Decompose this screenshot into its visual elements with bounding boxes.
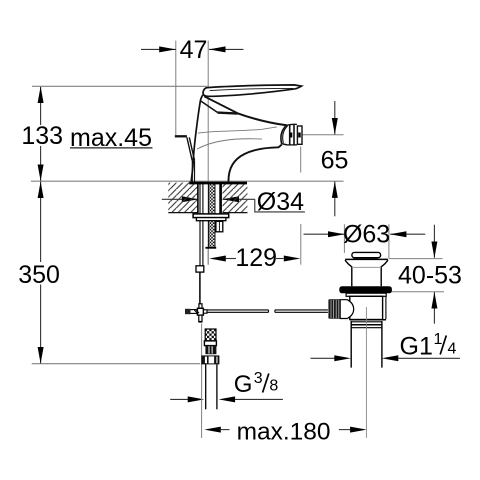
svg-text:40-53: 40-53	[398, 261, 462, 289]
drain valve knurled knob	[328, 299, 340, 319]
svg-text:G: G	[234, 371, 253, 398]
svg-text:65: 65	[321, 146, 349, 174]
svg-text:max.180: max.180	[237, 419, 331, 446]
flexible hose with G3/8 connector	[201, 329, 219, 409]
linkage cross fitting	[185, 304, 207, 322]
svg-text:3: 3	[254, 370, 263, 387]
svg-text:G1: G1	[400, 333, 433, 361]
countertop deck hatch right	[223, 183, 248, 213]
dimension G 3/8	[170, 370, 283, 402]
pop-up rod lower	[196, 266, 204, 304]
label max.45	[70, 124, 153, 152]
svg-text:133: 133	[21, 122, 63, 150]
svg-text:47: 47	[180, 36, 208, 64]
faucet handle lever	[200, 85, 301, 114]
node: extension line 47 right / faucet centerline	[207, 41, 209, 181]
svg-text:1: 1	[434, 331, 443, 348]
dimension 129	[208, 147, 301, 273]
svg-text:129: 129	[235, 244, 277, 272]
dimension G1 1/4	[311, 331, 461, 361]
horizontal actuator rod	[207, 310, 328, 312]
faucet body	[191, 95, 286, 182]
drain valve side port connector	[340, 300, 354, 319]
dimension 133	[21, 87, 63, 182]
wire: reference line deck top y=181	[31, 180, 344, 182]
svg-text:350: 350	[18, 261, 60, 289]
dimension max.180	[202, 324, 367, 446]
wire: reference line hose end y=364	[32, 363, 201, 365]
dimension Ø34	[162, 188, 305, 216]
spout aerator	[281, 124, 302, 145]
faucet base thick line	[189, 182, 247, 185]
svg-text:Ø34: Ø34	[257, 188, 304, 216]
svg-text:Ø63: Ø63	[343, 220, 390, 248]
svg-text:8: 8	[269, 378, 278, 395]
shank through deck	[193, 184, 229, 266]
deck bottom lines	[168, 212, 198, 214]
wire: reference line handle top y=86	[32, 85, 208, 87]
countertop deck hatch left	[168, 183, 198, 213]
node: extension line 47 left	[175, 41, 177, 135]
dimension 40-53	[389, 225, 462, 324]
dimension 350	[18, 182, 60, 364]
dimension Ø63	[304, 220, 426, 258]
pop-up rod upper bracket	[175, 136, 195, 182]
dimension 65	[302, 101, 348, 216]
dimension 47	[141, 36, 244, 64]
drain valve body	[328, 252, 392, 438]
svg-text:4: 4	[448, 341, 457, 358]
